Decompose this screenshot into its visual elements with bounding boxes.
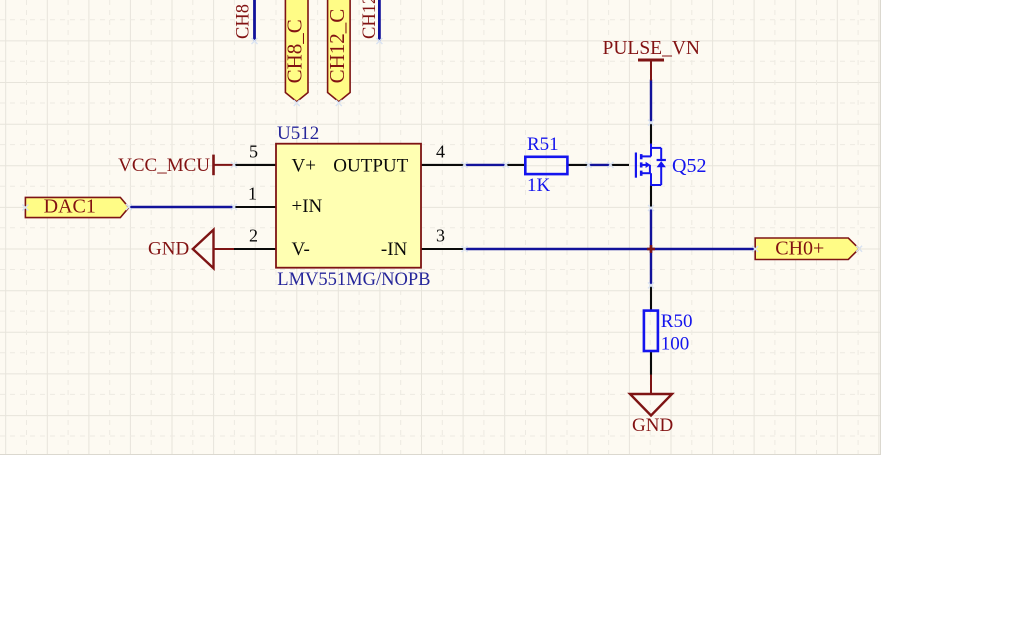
svg-text:CH8: CH8 (234, 4, 254, 39)
svg-text:Q52: Q52 (672, 155, 706, 177)
svg-text:R51: R51 (527, 134, 559, 155)
svg-text:1K: 1K (527, 175, 551, 196)
svg-text:+IN: +IN (292, 196, 323, 217)
svg-text:CH0+: CH0+ (775, 237, 824, 259)
svg-text:GND: GND (632, 415, 673, 436)
svg-text:V-: V- (292, 239, 310, 260)
svg-text:4: 4 (436, 142, 445, 162)
svg-text:100: 100 (661, 334, 690, 355)
svg-text:1: 1 (248, 184, 257, 204)
svg-text:CH8_C: CH8_C (283, 19, 307, 83)
svg-text:3: 3 (436, 226, 445, 246)
svg-text:V+: V+ (292, 155, 316, 176)
svg-text:CH12_C: CH12_C (325, 9, 349, 84)
svg-text:LMV551MG/NOPB: LMV551MG/NOPB (277, 270, 430, 290)
svg-text:PULSE_VN: PULSE_VN (603, 38, 701, 59)
svg-text:-IN: -IN (381, 239, 408, 260)
svg-text:CH12: CH12 (360, 0, 380, 39)
svg-text:GND: GND (148, 239, 189, 260)
svg-text:2: 2 (249, 226, 258, 246)
svg-text:R50: R50 (661, 311, 693, 332)
svg-text:OUTPUT: OUTPUT (333, 155, 408, 176)
svg-text:U512: U512 (277, 123, 319, 144)
svg-text:DAC1: DAC1 (44, 196, 96, 218)
svg-text:5: 5 (249, 142, 258, 162)
svg-text:VCC_MCU: VCC_MCU (118, 155, 210, 176)
